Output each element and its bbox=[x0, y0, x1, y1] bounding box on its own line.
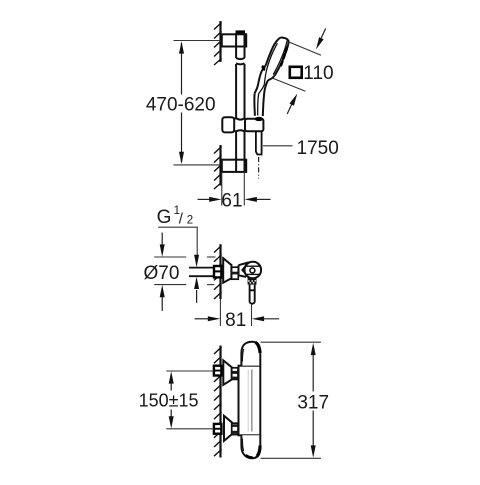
hand shower face shading marks bbox=[281, 48, 287, 66]
svg-text:110: 110 bbox=[303, 63, 333, 84]
hand shower middle contour line bbox=[264, 43, 277, 85]
dimension 61: arrows bbox=[198, 197, 271, 202]
thermostat body bbox=[239, 366, 261, 436]
top escutcheon cone bbox=[223, 360, 231, 384]
dimension 61: extension lines bbox=[221, 173, 223, 206]
supply pipe G 1/2 bbox=[189, 268, 214, 277]
bottom escutcheon cone bbox=[224, 416, 232, 441]
svg-text:61: 61 bbox=[221, 190, 242, 211]
ribbed connector ring bbox=[232, 267, 239, 279]
escutcheon cone bbox=[223, 258, 231, 283]
housing chords bbox=[246, 265, 261, 267]
slider holder (right) bbox=[245, 119, 263, 131]
body highlight groove bbox=[251, 370, 253, 432]
hand shower face inner line bbox=[273, 41, 287, 75]
dimension 150+-15: arrows bbox=[169, 371, 174, 428]
top ribbed ring bbox=[232, 368, 238, 380]
dimension 150+-15: extension lines bbox=[166, 370, 214, 372]
top wall bracket bbox=[222, 34, 246, 46]
hose centerline (dash-dot) bbox=[258, 157, 260, 179]
valve body polygon bbox=[239, 262, 249, 277]
dimension 81: extension lines bbox=[219, 299, 221, 326]
svg-text:470-620: 470-620 bbox=[146, 95, 216, 116]
handle (tube to holder) bbox=[254, 80, 268, 116]
wall (bottom segment) bbox=[214, 145, 222, 189]
wall (middle) bbox=[214, 244, 222, 299]
dimension O70: arrows bbox=[160, 233, 165, 311]
valve ball housing (circle) bbox=[245, 262, 262, 279]
G 1/2 thread arrows (pipe diameter) bbox=[194, 255, 199, 303]
G 1/2 leader line bbox=[158, 227, 197, 255]
dimension square 110: arrows bbox=[287, 29, 325, 115]
svg-text:81: 81 bbox=[225, 310, 246, 331]
handle socket (black cone end) bbox=[255, 117, 264, 121]
bottom ribbed ring bbox=[232, 423, 238, 434]
svg-text:317: 317 bbox=[297, 392, 329, 413]
wall (bottom view) bbox=[214, 346, 222, 458]
bottom handle bbox=[241, 435, 260, 458]
dimension 470-620: extension lines bbox=[174, 40, 221, 42]
dimension 317: extension lines bbox=[261, 341, 321, 343]
label G 1/2 bbox=[157, 205, 194, 228]
wall (top segment) bbox=[214, 21, 222, 65]
dimension 81: arrows bbox=[195, 316, 280, 321]
hand shower head outline bbox=[255, 38, 289, 94]
top handle bbox=[241, 342, 260, 366]
dimension 317: dimension line and arrows bbox=[311, 343, 316, 458]
svg-text:1750: 1750 bbox=[297, 138, 339, 159]
svg-text:2: 2 bbox=[187, 215, 193, 227]
union nut bbox=[214, 266, 221, 277]
leader 1750 bbox=[263, 145, 293, 147]
handle inner line bbox=[258, 85, 265, 116]
bottom wall bracket bbox=[222, 160, 246, 172]
shower hose below holder bbox=[256, 131, 262, 154]
top union nut bbox=[214, 366, 222, 376]
rail break symbol (lower lip) and rail to slider bbox=[236, 63, 244, 118]
dimension square 110: extension lines along face plane bbox=[289, 42, 321, 55]
dimension O70: extension lines bbox=[154, 257, 215, 285]
dimension 470-620: dimension line and arrows bbox=[179, 41, 184, 164]
knurled nut (dark) bbox=[248, 278, 257, 285]
rail end cap (black) bbox=[236, 30, 245, 34]
svg-text:150±15: 150±15 bbox=[139, 390, 199, 410]
rail lower segment (slider to bottom bracket) bbox=[236, 132, 244, 172]
slider waist around rail bbox=[234, 118, 245, 131]
svg-text:G: G bbox=[157, 207, 172, 228]
square symbol bbox=[290, 67, 302, 78]
bottom union nut bbox=[214, 424, 222, 434]
svg-text:Ø70: Ø70 bbox=[144, 263, 180, 284]
spray mode button (dark bump on back edge) bbox=[261, 65, 266, 72]
outlet tube bbox=[250, 285, 255, 304]
slider knob (left) bbox=[222, 117, 234, 132]
center screw circle bbox=[250, 268, 255, 273]
rail upper segment bbox=[236, 33, 244, 59]
